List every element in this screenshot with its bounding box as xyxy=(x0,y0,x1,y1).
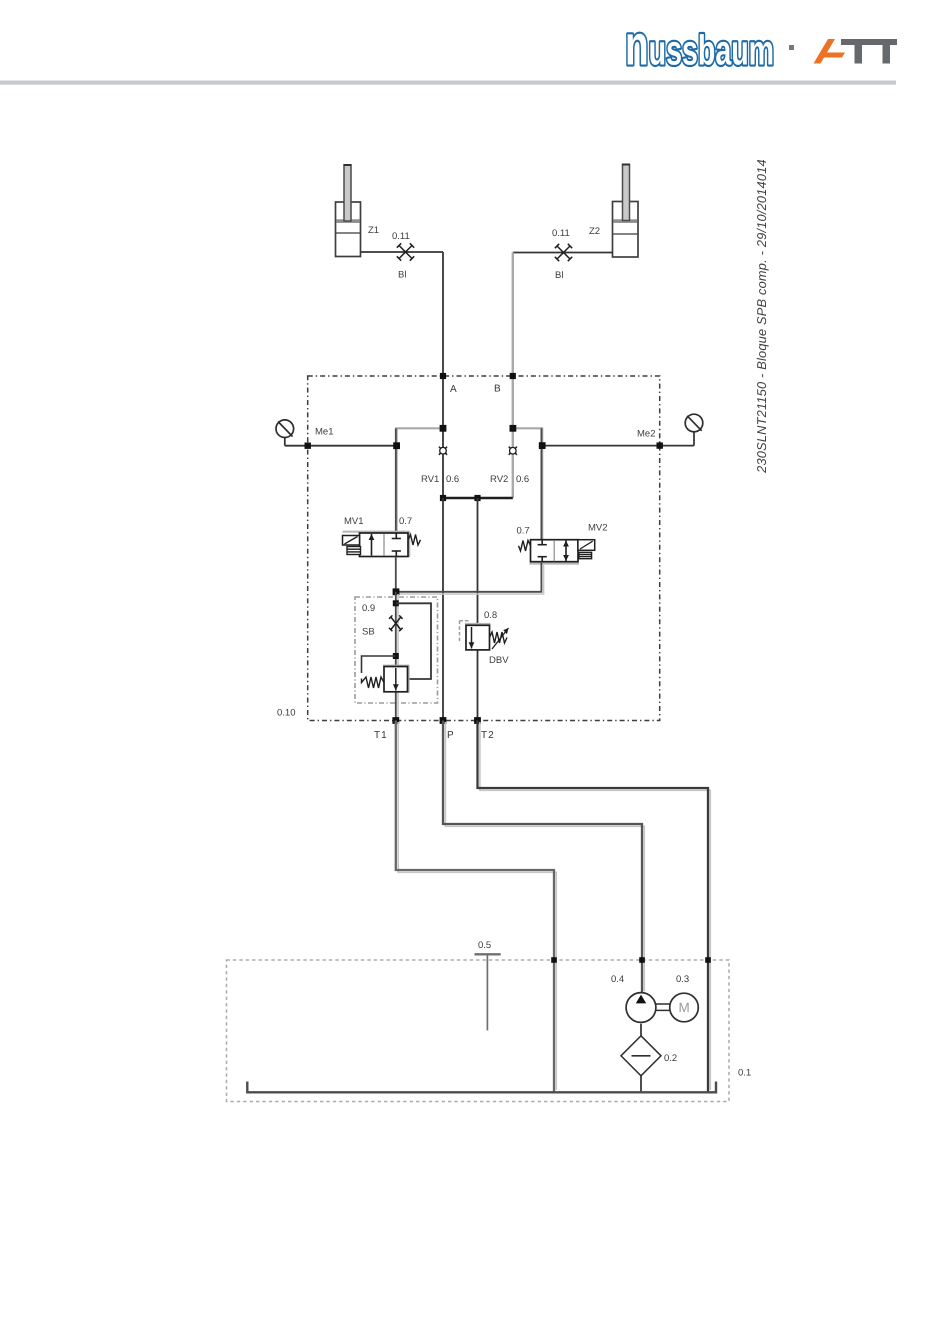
MV2 right square arrow xyxy=(565,541,567,562)
wire MV2 vertical dark xyxy=(540,428,542,539)
svg-text:Me1: Me1 xyxy=(315,427,333,438)
junction A border xyxy=(440,373,446,379)
MV2 manual override xyxy=(579,552,592,558)
junction Me1 border xyxy=(305,443,311,449)
svg-text:RV1: RV1 xyxy=(421,474,439,485)
shaft pump-motor xyxy=(656,1004,670,1010)
wire T1 vertical in block xyxy=(395,592,397,721)
header divider bar xyxy=(0,81,896,85)
wire T2 to tank halo xyxy=(480,722,710,1090)
wire filter to tank xyxy=(640,1076,642,1093)
junction A elbow xyxy=(440,425,447,432)
svg-text:0.8: 0.8 xyxy=(484,610,497,621)
junction connector left xyxy=(440,495,446,501)
wire RV connector xyxy=(443,497,513,500)
SB bypass wire xyxy=(396,603,431,679)
breather 0.5 xyxy=(475,953,501,955)
svg-text:T2: T2 xyxy=(481,730,495,741)
wire T2 to tank xyxy=(478,721,709,1093)
wire P to pump xyxy=(443,721,642,994)
wire T1 to tank halo xyxy=(398,722,556,1090)
relief valve DBV xyxy=(460,621,509,650)
SB block border 0.9 xyxy=(355,597,438,703)
wire MV1 vertical dark xyxy=(395,428,397,533)
wire MV2 drop and return halo xyxy=(398,565,544,594)
MV2 left square blocked ports xyxy=(538,540,547,562)
junction Me2 gray line xyxy=(539,442,546,449)
svg-text:MV2: MV2 xyxy=(588,523,608,534)
filter 0.2 xyxy=(621,1036,661,1076)
gray elbow right xyxy=(513,428,542,539)
svg-text:B: B xyxy=(494,384,501,395)
wire MV1 to T1 junction xyxy=(395,557,397,592)
MV1 spring xyxy=(408,535,421,545)
junction P border xyxy=(440,717,447,724)
pump 0.4 xyxy=(626,993,656,1023)
tank bottom line xyxy=(247,1082,716,1093)
tank border 0.1 xyxy=(227,960,730,1102)
svg-text:0.11: 0.11 xyxy=(392,231,410,242)
svg-text:SB: SB xyxy=(362,627,375,638)
wire P vertical in block xyxy=(442,498,444,721)
junction B elbow xyxy=(510,425,517,432)
MV2 solenoid xyxy=(578,540,595,551)
SB throttle xyxy=(389,615,403,631)
logo separator dot xyxy=(789,45,794,50)
valve MV2 xyxy=(519,540,595,564)
junction T2 tank border xyxy=(705,957,711,963)
wire Z2 to B-line xyxy=(513,252,613,254)
wire T2 vertical in block xyxy=(477,498,479,721)
cylinder Z2 xyxy=(613,165,639,258)
wire B gray vertical xyxy=(512,253,514,499)
junction Me2 border xyxy=(657,442,663,448)
check valve RV2 xyxy=(509,447,517,455)
svg-text:A: A xyxy=(450,384,457,395)
check valve RV1 xyxy=(439,447,447,455)
junction T2 border xyxy=(474,717,481,724)
MV1 solenoid xyxy=(343,536,360,546)
svg-text:0.4: 0.4 xyxy=(611,974,624,985)
svg-text:DBV: DBV xyxy=(489,655,509,666)
svg-text:0.11: 0.11 xyxy=(552,228,570,239)
wire T1 to tank xyxy=(396,721,554,1093)
junction return line xyxy=(393,588,400,595)
junction SB mid xyxy=(393,653,399,659)
svg-text:MV1: MV1 xyxy=(344,516,364,527)
orifice 0.11 left xyxy=(397,243,414,260)
svg-text:0.5: 0.5 xyxy=(478,940,491,951)
motor 0.3 xyxy=(670,993,699,1022)
svg-text:230SLNT21150 - Bloque SPB comp: 230SLNT21150 - Bloque SPB comp. - 29/10/… xyxy=(754,159,769,474)
wire P to pump halo xyxy=(445,722,644,991)
logo ATT TT gray xyxy=(841,39,897,64)
svg-text:Bl: Bl xyxy=(555,270,563,281)
junction P tank border xyxy=(639,957,645,963)
wire A vertical xyxy=(442,252,444,498)
junction B border xyxy=(510,373,516,379)
junction T1 tank border xyxy=(551,957,557,963)
junction T1 border xyxy=(392,717,399,724)
wire MV2 drop and return xyxy=(396,562,541,592)
wire Me1 xyxy=(285,445,397,447)
logo ATT A orange xyxy=(814,39,836,64)
cylinder Z1 xyxy=(336,165,361,257)
valve MV1 xyxy=(343,532,421,557)
svg-text:0.7: 0.7 xyxy=(517,526,530,537)
svg-text:0.6: 0.6 xyxy=(516,474,529,485)
wire Me2 xyxy=(542,445,694,447)
svg-text:0.1: 0.1 xyxy=(738,1068,751,1079)
MV2 spring xyxy=(519,541,531,551)
manifold block border 0.10 xyxy=(308,376,660,721)
svg-text:0.7: 0.7 xyxy=(399,516,412,527)
test point Me1 xyxy=(276,420,294,446)
gray elbow left xyxy=(397,428,443,532)
svg-text:Z2: Z2 xyxy=(589,226,600,237)
SB spring xyxy=(362,677,385,688)
svg-text:0.2: 0.2 xyxy=(664,1053,677,1064)
MV1 left square arrow xyxy=(371,534,373,556)
wire Z1 to A-line xyxy=(361,251,444,253)
logo Nussbaum xyxy=(625,14,774,78)
junction SB top xyxy=(393,600,399,606)
svg-text:0.10: 0.10 xyxy=(277,708,296,719)
junction Me1 gray line xyxy=(393,442,400,449)
wire T1 vertical in block halo xyxy=(397,594,399,720)
junction connector mid xyxy=(474,495,480,501)
SB pilot wire left xyxy=(362,656,396,673)
svg-text:0.6: 0.6 xyxy=(446,474,459,485)
svg-text:T1: T1 xyxy=(374,730,388,741)
svg-text:RV2: RV2 xyxy=(490,474,508,485)
wire pump to filter xyxy=(640,1024,642,1036)
svg-text:Z1: Z1 xyxy=(368,225,379,236)
DBV spring xyxy=(490,632,508,643)
SB relief valve xyxy=(383,666,410,693)
svg-text:Me2: Me2 xyxy=(637,429,655,440)
test point Me2 xyxy=(685,414,703,445)
svg-text:0.3: 0.3 xyxy=(676,974,689,985)
svg-text:0.9: 0.9 xyxy=(362,603,375,614)
MV1 right square blocked ports xyxy=(392,533,401,557)
svg-text:Bl: Bl xyxy=(398,270,406,281)
svg-text:M: M xyxy=(679,1000,690,1015)
MV1 manual override xyxy=(347,547,361,555)
orifice 0.11 right xyxy=(555,244,572,261)
svg-text:P: P xyxy=(447,730,454,741)
